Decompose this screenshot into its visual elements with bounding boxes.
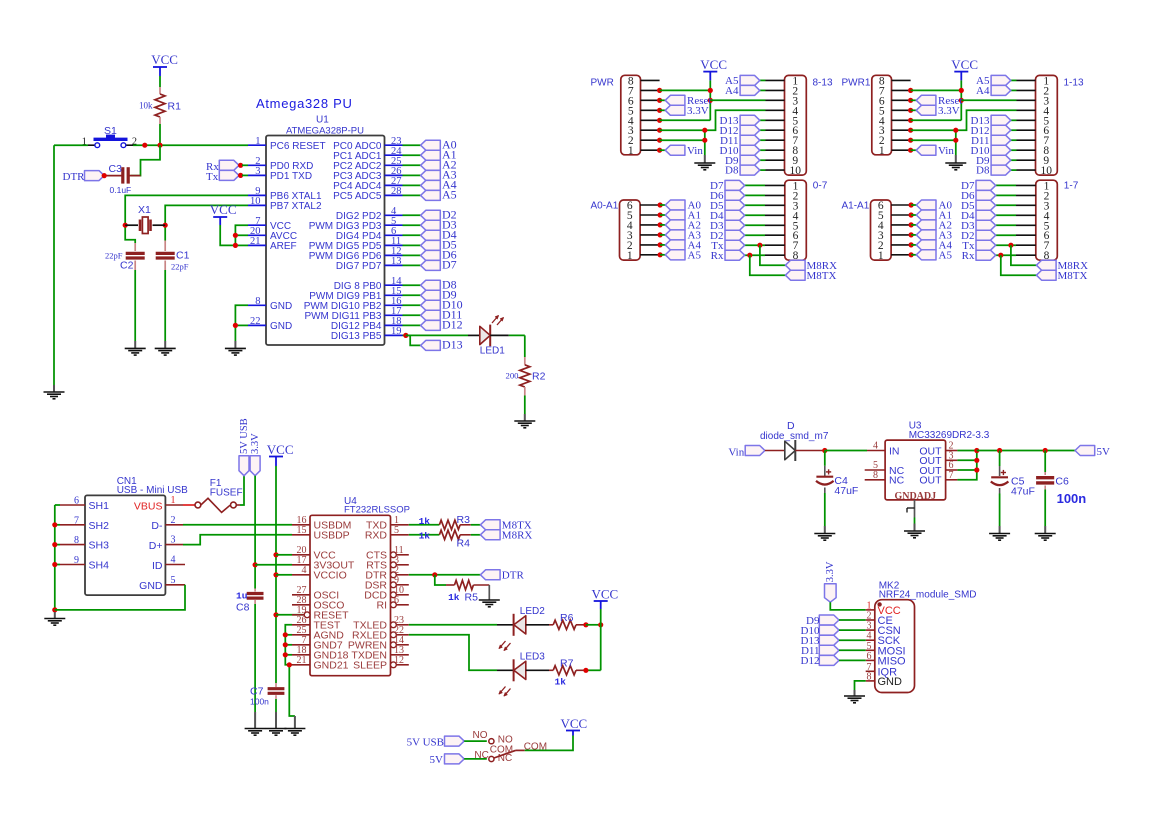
svg-text:A5: A5 <box>688 249 702 261</box>
CN1 pin 2 D- <box>151 515 183 532</box>
node A0 flag <box>421 138 457 152</box>
node Rx flag (0-7) <box>711 250 765 262</box>
wire DTR net (U4) <box>409 572 481 585</box>
node A5 flag (A0-A1) <box>660 249 701 261</box>
svg-text:8: 8 <box>867 671 872 682</box>
svg-text:C6: C6 <box>1055 475 1069 487</box>
svg-text:A1-A1: A1-A1 <box>842 201 870 212</box>
U1 pin 17 PWM DIG11 PB3 <box>304 306 402 322</box>
capacitor C7 100n <box>250 683 284 707</box>
svg-text:FT232RLSSOP: FT232RLSSOP <box>344 505 410 516</box>
U4 pin 14 PWREN <box>348 635 409 652</box>
ground (PWR1) <box>945 155 966 170</box>
svg-text:DIG7 PD7: DIG7 PD7 <box>336 261 382 272</box>
svg-text:GND: GND <box>878 676 903 688</box>
U1 pin 13 DIG7 PD7 <box>336 256 403 272</box>
wire R4 to M8RX <box>471 534 481 536</box>
node D8 flag (1-13) <box>976 165 1016 177</box>
U1 pin 28 PC5 ADC5 <box>333 186 402 202</box>
capacitor C6 100n <box>1036 451 1086 506</box>
U1 pin 7 VCC <box>248 216 291 232</box>
node D2 flag <box>421 208 457 222</box>
U4 pin 18 GND18 <box>292 645 349 662</box>
U1 pin 20 AVCC <box>248 226 297 242</box>
MK2 pin 8 GND <box>866 671 902 688</box>
wire VCC to R1 <box>159 76 161 87</box>
svg-text:R2: R2 <box>532 371 546 383</box>
svg-text:1: 1 <box>171 495 176 506</box>
svg-text:200: 200 <box>505 371 519 381</box>
node 5V USB flag (switch) <box>407 736 465 748</box>
connector PWR <box>591 75 660 157</box>
CN1 pin 3 D+ <box>149 535 183 552</box>
wire TXD to R3 <box>409 524 440 526</box>
svg-text:VCC: VCC <box>210 202 237 217</box>
capacitor C8 1u <box>236 589 264 614</box>
svg-text:0-7: 0-7 <box>813 181 828 192</box>
svg-text:USBDP: USBDP <box>314 530 350 542</box>
svg-text:8: 8 <box>74 535 79 546</box>
U1 pin 10 PB7 XTAL2 <box>248 196 322 212</box>
svg-text:ID: ID <box>152 560 163 572</box>
svg-text:NC: NC <box>474 750 488 761</box>
switch SW NC terminal <box>474 750 512 764</box>
svg-text:PD1 TXD: PD1 TXD <box>270 171 312 182</box>
node D9 flag (MK2) <box>806 615 866 627</box>
svg-text:7: 7 <box>949 470 954 481</box>
svg-text:47uF: 47uF <box>834 485 858 497</box>
wire 5V to NC <box>464 758 487 760</box>
svg-text:SH4: SH4 <box>89 560 110 572</box>
wires PWR junctions <box>657 88 662 153</box>
U4 pin 19 RESET <box>292 605 349 622</box>
U1 pin 27 PC4 ADC4 <box>333 176 402 192</box>
U1 pin 19 DIG13 PB5 <box>331 326 403 342</box>
svg-text:3: 3 <box>255 166 260 177</box>
svg-text:28: 28 <box>391 186 402 197</box>
power flag VCC (switch) <box>561 716 588 736</box>
node M8TX flag (0-7) <box>785 270 836 282</box>
svg-text:R5: R5 <box>465 592 479 604</box>
power flag VCC (LED2) <box>592 587 619 610</box>
wire XTAL2 net <box>163 205 248 240</box>
svg-text:OUT: OUT <box>919 475 942 487</box>
svg-text:D+: D+ <box>149 540 163 552</box>
svg-text:1k: 1k <box>419 516 431 527</box>
svg-text:VCC: VCC <box>592 587 619 602</box>
svg-text:U1: U1 <box>316 115 329 126</box>
wire S1 pin1 to GND rail <box>54 145 88 385</box>
wire R1 to RESET net <box>159 124 161 145</box>
U1 pin 1 PC6 RESET <box>248 136 326 152</box>
ground (C1) <box>155 341 176 355</box>
U1 pin 23 PC0 ADC0 <box>333 136 402 152</box>
svg-text:10: 10 <box>1041 165 1053 177</box>
switch SW NO terminal <box>473 730 514 746</box>
node M8TX flag (1-7) <box>1036 270 1087 282</box>
resistor R4 1k <box>419 530 471 549</box>
wires PWR1 junctions <box>908 88 913 153</box>
ground (C8) <box>245 712 266 735</box>
node Vin flag (regulator) <box>728 446 765 459</box>
resistor R2 200 <box>505 357 545 396</box>
wire U1 to D10 <box>403 304 421 306</box>
node D9 flag (8-13) <box>725 155 765 167</box>
node A0 flag (A1-A1) <box>911 200 952 212</box>
svg-text:3: 3 <box>171 535 176 546</box>
U1 pin 6 DIG4 PD4 <box>336 226 403 242</box>
U1 pin 12 PWM DIG6 PD6 <box>309 246 403 262</box>
node A2 flag (A0-A1) <box>660 220 701 232</box>
node D6 flag (1-7) <box>961 190 1016 202</box>
ground (R2) <box>514 414 535 428</box>
svg-text:Vin: Vin <box>938 145 954 157</box>
svg-text:R6: R6 <box>560 612 574 624</box>
node A3 flag (A0-A1) <box>660 230 701 242</box>
svg-text:NC: NC <box>889 475 905 487</box>
resistor R7 1k <box>549 658 589 688</box>
U1 pin 5 PWM DIG3 PD3 <box>309 216 403 232</box>
svg-text:LED2: LED2 <box>520 606 545 617</box>
ground (U1) <box>225 341 246 355</box>
node D7 flag <box>421 258 457 272</box>
svg-text:0.1uF: 0.1uF <box>110 185 132 195</box>
node D8 flag (8-13) <box>725 165 765 177</box>
crystal X1 <box>125 204 165 234</box>
svg-text:1-7: 1-7 <box>1064 181 1079 192</box>
U1 pin 25 PC2 ADC2 <box>333 156 402 172</box>
MK2 pin 4 SCK <box>866 631 901 648</box>
ground (C6) <box>1035 526 1056 540</box>
U1 pin 21 AREF <box>248 236 297 252</box>
U4 pin 13 TXDEN <box>351 645 408 662</box>
svg-text:IN: IN <box>889 445 900 457</box>
MK2 pin 5 MOSI <box>866 641 906 658</box>
wire U1 to A1 <box>403 154 421 156</box>
wire U1 to D8 <box>403 284 421 286</box>
svg-text:VCC: VCC <box>700 57 727 72</box>
U4 pin 4 VCCIO <box>292 565 347 582</box>
node D10 flag (1-13) <box>971 145 1017 157</box>
U4 pin 6 RI <box>377 595 409 612</box>
node D4 flag (0-7) <box>710 210 765 222</box>
svg-text:D13: D13 <box>442 338 463 352</box>
svg-text:100n: 100n <box>1057 491 1087 506</box>
svg-text:A4: A4 <box>976 85 990 97</box>
node D2 flag (0-7) <box>710 230 765 242</box>
node Vin flag (PWR1) <box>911 145 955 157</box>
node D12 flag (MK2) <box>801 655 866 667</box>
U4 pin 11 CTS <box>366 545 409 562</box>
node A4 flag <box>421 178 457 192</box>
node D3 flag (1-7) <box>961 220 1016 232</box>
svg-text:Vin: Vin <box>728 447 744 459</box>
wire RESET net S1-R1-pin1 <box>133 143 248 148</box>
svg-text:PC6 RESET: PC6 RESET <box>270 141 326 152</box>
wire U1 to D6 <box>403 254 421 256</box>
CN1 pin 9 SH4 <box>60 555 109 572</box>
U1 pin 11 PWM DIG5 PD5 <box>309 236 403 252</box>
svg-text:5V USB: 5V USB <box>239 418 250 454</box>
svg-text:1: 1 <box>879 145 885 157</box>
svg-text:1: 1 <box>628 145 634 157</box>
svg-text:LED3: LED3 <box>520 652 545 663</box>
ground (C4) <box>814 526 835 540</box>
svg-text:C3: C3 <box>109 163 123 175</box>
U4 pin 27 OSCI <box>292 585 339 602</box>
wire R6 to VCC <box>583 622 603 627</box>
connector A1-A1 <box>842 200 914 262</box>
svg-text:VCC: VCC <box>951 57 978 72</box>
U4 pin 7 GND7 <box>292 635 343 652</box>
svg-text:NRF24_module_SMD: NRF24_module_SMD <box>879 589 977 600</box>
power flag VCC (U4) <box>267 442 294 466</box>
wire COM to VCC <box>525 736 573 751</box>
CN1 pin 7 SH2 <box>60 515 109 532</box>
capacitor C5 47uF <box>991 451 1035 498</box>
MK2 pin 7 IQR <box>866 662 897 679</box>
svg-text:VCC: VCC <box>267 442 294 457</box>
node D6 flag <box>421 248 457 262</box>
svg-text:D-: D- <box>151 520 163 532</box>
node A1 flag <box>421 148 457 162</box>
node D2 flag (1-7) <box>961 230 1016 242</box>
U4 pin 3 RTS <box>366 555 409 572</box>
U4 pin 20 VCC <box>292 545 336 562</box>
wire Vin rail to U3 IN <box>822 448 867 453</box>
svg-text:PWR1: PWR1 <box>842 78 871 89</box>
svg-text:6: 6 <box>74 496 79 507</box>
svg-text:21: 21 <box>297 655 307 666</box>
svg-text:22pF: 22pF <box>171 262 189 272</box>
U1 pin 24 PC1 ADC1 <box>333 146 402 162</box>
svg-text:6: 6 <box>394 595 399 606</box>
U4 pin 2 DTR <box>365 565 408 582</box>
wire C5 to ground <box>999 494 1001 527</box>
wire Rx to M8TX (0-7) <box>747 253 785 276</box>
wire C4 to ground <box>824 493 826 526</box>
node A5 flag (8-13) <box>725 75 765 87</box>
U4 pin 10 DCD <box>364 585 409 602</box>
U3 pin 2 OUT <box>919 441 957 458</box>
svg-text:1k: 1k <box>448 592 460 603</box>
wire C1 to ground <box>164 270 166 341</box>
node Tx flag (1-7) <box>962 240 1016 252</box>
svg-text:15: 15 <box>297 525 307 536</box>
wire U1 to A2 <box>403 164 421 166</box>
U3 pin 5 NC <box>865 460 905 477</box>
U4 pin 28 OSCO <box>292 595 344 612</box>
svg-text:RI: RI <box>377 600 388 612</box>
wire VCC rail PWR1 <box>911 80 1017 120</box>
node D11 flag (1-13) <box>971 135 1017 147</box>
U4 pin 9 DSR <box>365 575 409 592</box>
svg-text:FUSEF: FUSEF <box>210 487 243 498</box>
wire 3.3V to MK2 VCC <box>830 602 865 610</box>
svg-text:1k: 1k <box>555 677 567 688</box>
svg-text:VCCIO: VCCIO <box>314 570 347 582</box>
svg-text:8: 8 <box>873 470 878 481</box>
U4 pin 23 TXLED <box>353 615 409 632</box>
LED LED1 <box>468 316 509 357</box>
svg-text:1: 1 <box>878 250 884 262</box>
svg-text:LED1: LED1 <box>480 345 505 356</box>
svg-text:21: 21 <box>250 236 261 247</box>
svg-text:M8TX: M8TX <box>1058 270 1088 282</box>
svg-text:VCC: VCC <box>151 52 178 67</box>
U3 pin 3 OUT <box>919 450 957 467</box>
node D13 flag (1-13) <box>971 115 1017 127</box>
wire R3 to M8TX <box>471 524 481 526</box>
svg-text:1u: 1u <box>236 591 248 602</box>
connector 1-13 <box>1017 75 1084 177</box>
wire USBDP net <box>183 535 292 545</box>
wire F1 to 5V USB flag <box>240 476 244 505</box>
svg-text:12: 12 <box>394 655 404 666</box>
svg-text:VBUS: VBUS <box>134 500 163 512</box>
node A5 flag <box>421 188 457 202</box>
node D3 flag (0-7) <box>710 220 765 232</box>
node D7 flag (1-7) <box>961 180 1016 192</box>
wire Tx to M8RX (1-7) <box>1008 243 1036 266</box>
node A1 flag (A1-A1) <box>911 210 952 222</box>
node Reset flag (PWR) <box>660 95 712 107</box>
wire C2 to ground <box>134 270 136 341</box>
wire VCC-AVCC-AREF <box>220 225 248 248</box>
svg-text:10k: 10k <box>139 101 153 111</box>
wire GND pins U1 <box>233 305 248 341</box>
U4 pin 15 USBDP <box>292 525 350 542</box>
node D4 flag (1-7) <box>961 210 1016 222</box>
U1 pin 8 GND <box>248 296 292 312</box>
wire GND rail PWR <box>660 110 766 155</box>
wire VCC rail PWR <box>660 80 766 120</box>
wire USBDM net <box>183 524 292 526</box>
svg-text:R7: R7 <box>560 658 574 670</box>
IC U4 FT232RLSSOP box <box>310 496 410 676</box>
svg-text:5V: 5V <box>1097 446 1111 458</box>
svg-text:PB7 XTAL2: PB7 XTAL2 <box>270 201 322 212</box>
svg-text:A5: A5 <box>939 249 953 261</box>
node D6 flag (0-7) <box>710 190 765 202</box>
node A2 flag <box>421 158 457 172</box>
wire U1 to D4 <box>403 234 421 236</box>
svg-text:A5: A5 <box>442 188 457 202</box>
svg-text:Rx: Rx <box>711 250 724 262</box>
power flag VCC (PWR1) <box>951 57 978 80</box>
power flag VCC (PWR) <box>700 57 727 80</box>
svg-text:9: 9 <box>74 555 79 566</box>
U4 pin 17 3V3OUT <box>292 555 355 572</box>
node 3.3V flag (PWR) <box>660 105 709 117</box>
svg-text:D8: D8 <box>976 165 990 177</box>
wire 5V USB to NO <box>464 740 487 742</box>
connector A0-A1 <box>591 200 663 262</box>
svg-text:GND: GND <box>139 580 163 592</box>
wire XTAL1 net <box>123 195 248 243</box>
svg-text:M8RX: M8RX <box>502 530 533 542</box>
wire LED1 to R2 <box>509 335 525 357</box>
ground (C7) <box>266 712 287 735</box>
U1 pin 3 PD1 TXD <box>248 166 312 182</box>
U1 pin 14 DIG 8 PB0 <box>334 276 403 292</box>
wire U1 to A4 <box>403 184 421 186</box>
svg-text:SH1: SH1 <box>89 500 110 512</box>
wire TXLED to LED2 <box>409 624 497 626</box>
U4 pin 12 SLEEP <box>353 655 409 672</box>
node D13 flag (8-13) <box>720 115 766 127</box>
connector 1-7 <box>1016 180 1079 262</box>
CN1 pin 5 GND <box>139 575 185 592</box>
svg-text:4: 4 <box>873 441 878 452</box>
node M8RX flag (1-7) <box>1036 260 1088 272</box>
CN1 pin 4 ID <box>152 555 185 572</box>
svg-text:NO: NO <box>473 730 488 741</box>
capacitor C3 0.1uF <box>104 163 140 195</box>
svg-text:10: 10 <box>790 165 802 177</box>
diode D diode_smd_m7 <box>760 420 829 461</box>
wire R1 junction to C3 <box>131 145 161 175</box>
wire U1 to A3 <box>403 174 421 176</box>
node A4 flag (8-13) <box>725 85 765 97</box>
node Reset flag (PWR1) <box>911 95 963 107</box>
ground (U3) <box>904 524 925 538</box>
ground (C5) <box>989 526 1010 540</box>
svg-text:AREF: AREF <box>270 241 297 252</box>
node M8RX flag (U4) <box>480 530 532 542</box>
LED LED2 <box>497 606 549 651</box>
wire OUT rail <box>957 448 979 480</box>
ground (MK2) <box>844 690 865 703</box>
svg-text:2: 2 <box>171 515 176 526</box>
MK2 pin 3 CSN <box>866 621 901 638</box>
svg-text:C1: C1 <box>176 250 190 262</box>
wire U1 to A0 <box>403 144 421 146</box>
node 3.3V flag (vertical) <box>250 433 261 476</box>
U1 pin 16 PWM DIG10 PB2 <box>304 296 403 312</box>
svg-text:10: 10 <box>250 196 261 207</box>
wire TEST AGND GND rail <box>283 625 295 716</box>
svg-text:DIG13 PB5: DIG13 PB5 <box>331 331 382 342</box>
capacitor C4 47uF <box>816 451 858 498</box>
node D12 flag (8-13) <box>720 125 766 137</box>
node Rx flag (1-7) <box>962 250 1016 262</box>
wire C7 to ground <box>275 699 277 712</box>
svg-text:GND: GND <box>270 301 292 312</box>
node D13 flag (MK2) <box>801 635 866 647</box>
MK2 pin 1 VCC <box>866 600 901 617</box>
IC MK2 NRF24_module_SMD box <box>875 581 977 693</box>
node A4 flag (A0-A1) <box>660 240 701 252</box>
wire Rx to M8TX (1-7) <box>998 253 1036 276</box>
svg-text:3.3V: 3.3V <box>687 105 709 117</box>
svg-text:1k: 1k <box>419 530 431 541</box>
svg-text:D12: D12 <box>801 655 820 667</box>
svg-text:1: 1 <box>255 136 260 147</box>
node D9 flag <box>421 288 457 302</box>
node A5 flag (1-13) <box>976 75 1016 87</box>
node A2 flag (A1-A1) <box>911 220 952 232</box>
svg-text:5V USB: 5V USB <box>407 736 444 748</box>
svg-text:47uF: 47uF <box>1011 486 1035 498</box>
node 3.3V flag (MK2) <box>825 561 837 602</box>
node D11 flag <box>421 308 463 322</box>
U4 pin 21 GND21 <box>292 655 349 672</box>
node D11 flag (MK2) <box>801 645 866 657</box>
svg-text:3.3V: 3.3V <box>938 105 960 117</box>
switch S1 <box>82 125 137 148</box>
node D10 flag <box>421 298 463 312</box>
